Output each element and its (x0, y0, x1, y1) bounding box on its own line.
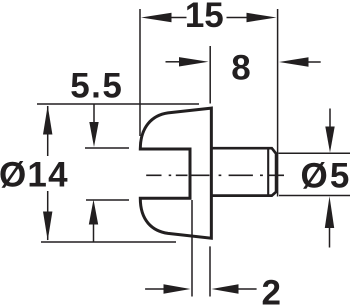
slot bottom ext (86, 199, 129, 201)
svg-text:5.5: 5.5 (70, 67, 123, 106)
dia5 arrow tails (329, 109, 332, 248)
8 right tail (308, 61, 321, 63)
bottom ref line (41, 241, 176, 243)
8 left : pointing right tip (208.5,61.8) (179, 57, 209, 66)
top ref line (37, 103, 199, 105)
ext line left (x=140) (139, 9, 141, 136)
bottom up arrow tip (93.5,199.5) (89, 200, 98, 225)
15 right : tip (276.5,17.5) pointing right (247, 13, 277, 22)
2 right arrow pointing left tip (211.5,289) (212, 284, 239, 294)
svg-text:15: 15 (185, 0, 224, 35)
centerline (146, 174, 284, 176)
dia5 lower ext (279, 195, 350, 197)
pin outline (211, 148, 276, 195)
8 left tail (166, 61, 181, 63)
pin chamfer line (267, 149, 269, 194)
svg-text:Ø5: Ø5 (301, 156, 350, 195)
arrows (43, 13, 335, 294)
ext line right (x=277.6) (277, 9, 279, 197)
svg-text:Ø14: Ø14 (0, 155, 69, 194)
bottom arrow tail (93, 225, 95, 242)
svg-text:2: 2 (261, 274, 280, 305)
8 left ext line (209, 46, 211, 104)
dia14 dim line (47, 106, 49, 240)
dim line 15 segments (171, 17, 247, 19)
dia5 upper ext (279, 152, 350, 154)
svg-text:8: 8 (231, 49, 250, 88)
2 left arrow pointing right tip (190.5,289) (164, 284, 191, 294)
5.5 down arrow tip (94,147) (89, 122, 98, 147)
slot top ext (85, 147, 129, 149)
2 ext lines (192, 200, 210, 297)
dia14 up arrow tip (47.7,105.5) (43, 106, 52, 135)
head outline (140, 108, 211, 238)
dia5 down arrow tip (330,152.5) (325, 127, 334, 153)
2 tails (145, 288, 257, 290)
5.5 tail (93, 105, 95, 124)
15 left : tip (141,17.5) pointing left (141, 13, 172, 22)
dia14 down arrow tip (47.7,240.5) (43, 212, 52, 241)
dia5 up arrow tip (329.5,198) (325, 196, 334, 228)
8 right : pointing left tip (279,62) (279, 57, 309, 66)
